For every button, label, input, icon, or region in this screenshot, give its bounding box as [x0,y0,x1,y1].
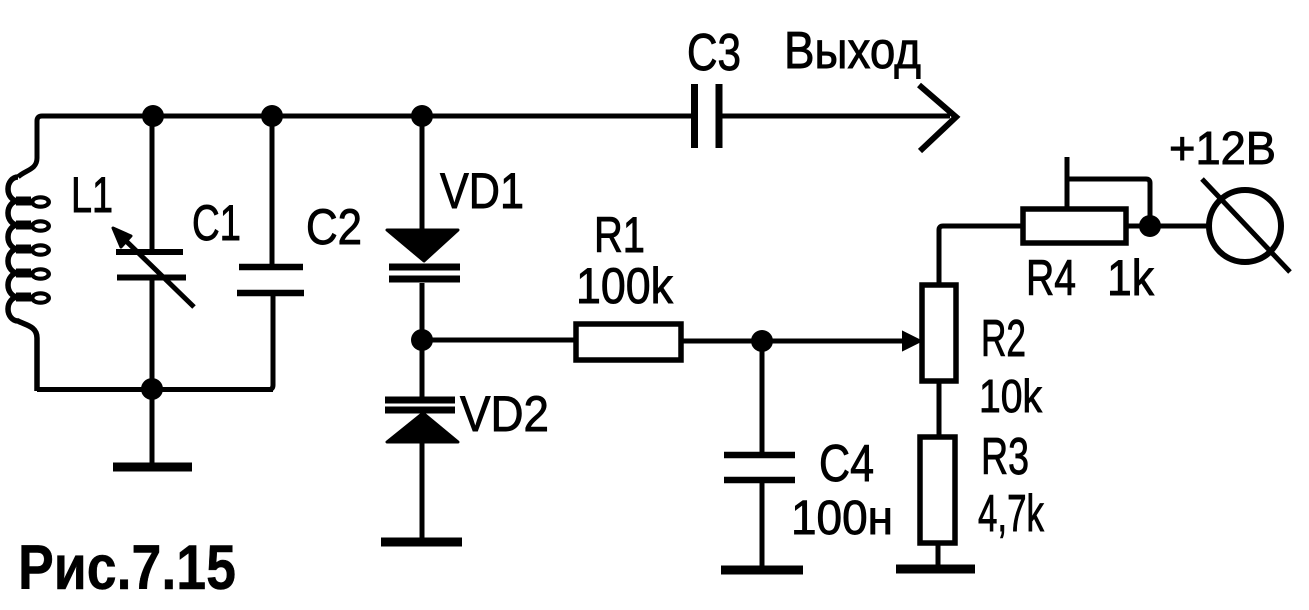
svg-text:100н: 100н [791,492,893,545]
svg-text:100k: 100k [576,258,674,314]
capacitor C1 (variable) [113,116,194,390]
svg-text:L1: L1 [71,167,113,223]
svg-text:VD1: VD1 [440,163,524,219]
ground (tank circuit) [113,389,192,467]
output arrow Выход [919,85,956,151]
inductor L1 [8,177,51,391]
junction R4 / wiper / +12V [1139,215,1161,237]
wire R1 to R2 wiper [681,339,905,344]
+12V supply connector [1202,179,1290,272]
svg-text:Рис.7.15: Рис.7.15 [18,533,236,603]
svg-text:+12В: +12В [1169,122,1276,174]
trimmer resistor R4 [1023,209,1126,243]
resistor R3 [920,437,955,543]
potentiometer R2 wiper arrow [903,332,921,350]
svg-text:4,7k: 4,7k [978,485,1045,543]
junction top rail / C2 [261,105,283,127]
wire junction to C4 [760,341,765,452]
wire R2 bottom to R3 [937,381,942,437]
trimmer R4 wiper stub [1065,157,1070,209]
junction bottom rail / ground [141,378,163,400]
capacitor C4 [724,455,795,566]
wire R4 wiper to output node [1067,179,1150,222]
svg-text:R2: R2 [981,310,1026,368]
wire varicap node to R1 [422,338,576,343]
svg-text:C4: C4 [819,435,874,493]
ground (C4) [721,566,803,575]
svg-text:1k: 1k [1107,250,1155,306]
junction top rail / VD1 [411,105,433,127]
svg-text:R4: R4 [1026,250,1076,306]
svg-text:C3: C3 [687,24,741,82]
wire R3 to ground [936,543,941,565]
svg-text:Выход: Выход [784,22,921,80]
junction top rail / C1 [142,105,164,127]
capacitor C2 [237,116,304,390]
svg-text:R1: R1 [594,207,645,263]
junction varicap node [411,329,433,351]
varicap diode VD1 [387,116,460,339]
wire R2 top to R4 [939,226,1023,285]
svg-text:VD2: VD2 [460,386,549,442]
wire bottom rail [37,387,273,392]
ground (VD2) [381,538,462,547]
wire top rail right section to output [722,114,950,119]
junction R1 / C4 [751,330,773,352]
svg-text:R3: R3 [981,428,1029,486]
svg-text:C1: C1 [192,195,241,251]
resistor R1 [576,324,681,360]
ground (R3) [896,565,975,574]
svg-text:10k: 10k [979,370,1043,422]
capacitor C3 [695,84,720,148]
wire top rail left section [18,116,691,177]
varicap diode VD2 [385,340,458,538]
potentiometer R2 [922,285,956,381]
wire R4 to +12V [1126,224,1209,229]
svg-text:C2: C2 [306,199,362,255]
